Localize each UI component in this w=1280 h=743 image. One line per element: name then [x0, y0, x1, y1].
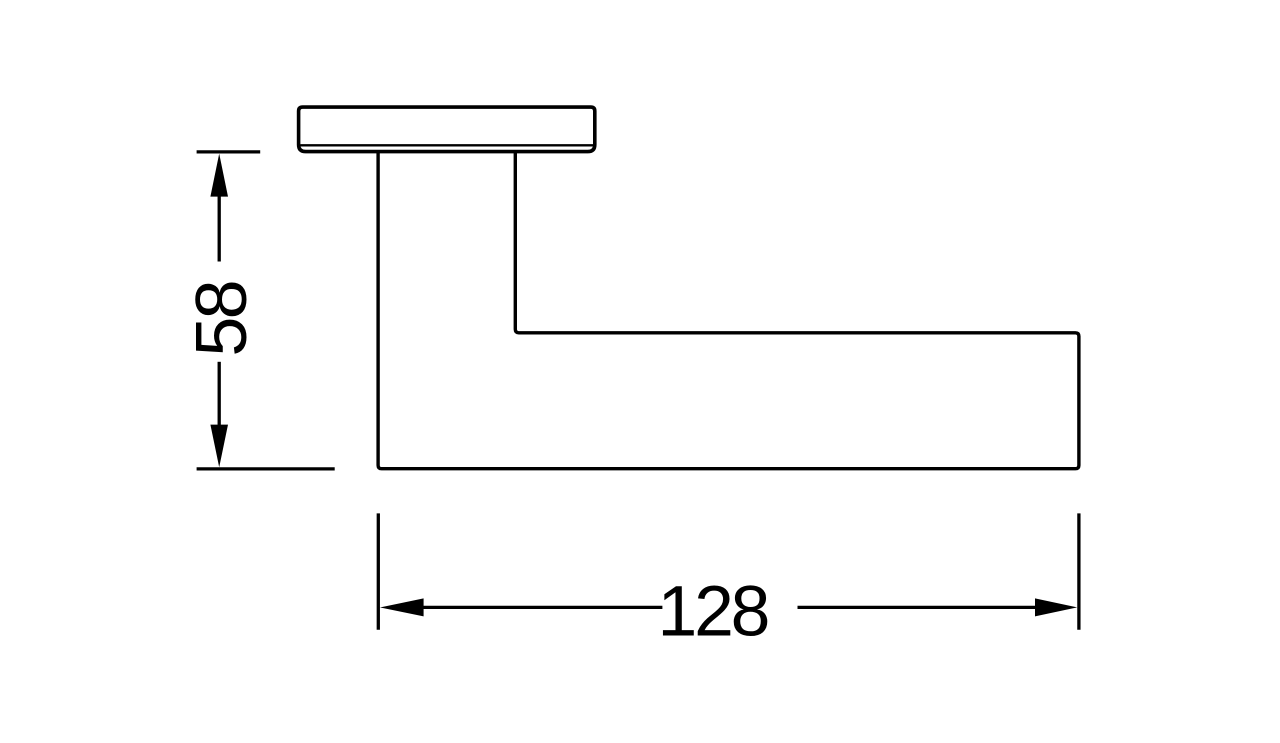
extension line bottom-right (below lever right edge)	[1077, 513, 1080, 629]
extension line bottom-left (below lever left edge)	[377, 513, 380, 629]
arrowhead up	[210, 154, 228, 197]
rose face divider line	[300, 144, 593, 146]
horizontal dimension line left segment	[423, 606, 662, 609]
arrowhead right	[1035, 598, 1077, 616]
svg-text:58: 58	[182, 282, 262, 357]
arrowhead down	[210, 425, 228, 468]
vertical dimension line lower segment	[218, 362, 221, 425]
extension line bottom (at lever underside, left)	[197, 467, 335, 470]
vertical dimension line upper segment	[218, 196, 221, 262]
horizontal dimension line right segment	[798, 606, 1036, 609]
handle (stem + lever) outline	[378, 153, 1079, 469]
extension line top (at rose underside)	[197, 150, 261, 153]
svg-text:128: 128	[658, 572, 768, 652]
rose (escutcheon outer outline)	[299, 107, 595, 152]
arrowhead left	[380, 598, 424, 616]
